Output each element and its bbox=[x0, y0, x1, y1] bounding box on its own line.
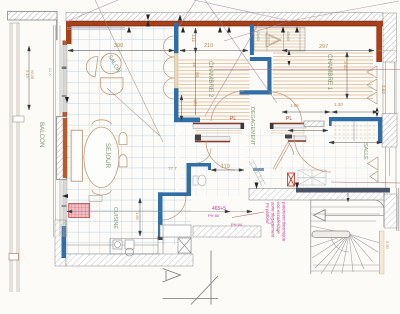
tile grid salle d'eau bbox=[300, 121, 378, 187]
sejour table bbox=[71, 120, 127, 195]
washbasin hatch bbox=[304, 121, 324, 127]
door leaf bathroom right bbox=[273, 142, 294, 170]
hatch band top main bbox=[66, 13, 383, 22]
bold wall arrows bbox=[62, 15, 379, 199]
hatch band right upper bbox=[383, 13, 397, 62]
red wall top bbox=[66, 21, 383, 26]
svg-text:297: 297 bbox=[319, 44, 328, 50]
hatch kitchen bottom band bbox=[66, 254, 193, 266]
svg-text:119: 119 bbox=[221, 164, 230, 170]
svg-text:2.13: 2.13 bbox=[25, 70, 30, 79]
section symbol A bbox=[163, 251, 219, 305]
magenta texts bbox=[208, 206, 243, 227]
baie vitree lines bbox=[67, 27, 125, 29]
red wall right leg bbox=[376, 21, 382, 62]
diagonal construction lines bbox=[66, 0, 399, 142]
arcs on wall W1 (salon side) bbox=[164, 36, 175, 99]
placard shelves under corridor bands bbox=[196, 131, 305, 134]
stair right tan strip bbox=[380, 231, 384, 274]
left wall windows bbox=[56, 20, 66, 237]
svg-text:210: 210 bbox=[204, 43, 213, 49]
svg-text:BALCON: BALCON bbox=[38, 122, 45, 147]
stairs bbox=[311, 188, 399, 274]
svg-text:2.92: 2.92 bbox=[343, 61, 348, 70]
closet divider bbox=[353, 121, 355, 141]
svg-text:PH 80: PH 80 bbox=[208, 213, 220, 218]
corridor top wall band right bbox=[270, 123, 306, 128]
stairs top wall band hatched bbox=[249, 189, 384, 201]
tile grid corridor bbox=[179, 125, 240, 196]
small radiator bbox=[89, 196, 102, 202]
salle d'eau door arc bbox=[294, 135, 331, 172]
room labels bbox=[38, 54, 368, 229]
kitchen counter bbox=[66, 225, 191, 256]
svg-text:111: 111 bbox=[190, 34, 196, 42]
svg-text:W.08: W.08 bbox=[30, 70, 35, 80]
svg-text:CHAMBRE 2: CHAMBRE 2 bbox=[207, 61, 214, 98]
window jambs/ticks left bbox=[48, 41, 67, 208]
duct strip bbox=[249, 160, 266, 187]
stair treads radiating bbox=[311, 207, 384, 274]
door strip tan bbox=[175, 53, 179, 88]
closet right dashes bbox=[334, 126, 377, 138]
salon furniture bbox=[85, 53, 123, 94]
small mark bbox=[253, 168, 264, 171]
placard top shelves bbox=[254, 29, 305, 50]
blue wall W4 wc/cuisine bbox=[187, 163, 212, 167]
svg-text:1.89: 1.89 bbox=[135, 212, 140, 221]
svg-text:465+5: 465+5 bbox=[212, 206, 226, 212]
svg-text:parement thermique: parement thermique bbox=[282, 201, 287, 242]
placard chevrons top right bbox=[266, 33, 281, 47]
red wall left leg bbox=[66, 21, 72, 44]
left wall hatched pier bbox=[57, 117, 67, 180]
placard small texts bbox=[256, 31, 290, 41]
blue wall W2 chambre2 bbox=[250, 25, 254, 56]
parquet chambre 1 bbox=[273, 52, 373, 100]
blue wall W3 closet/salle d'eau bbox=[329, 117, 382, 121]
tile grid bathroom top bbox=[179, 27, 250, 52]
door jambs corridor bbox=[241, 123, 274, 129]
corridor bottom wall right bbox=[285, 135, 306, 142]
hatch stairs right bbox=[384, 194, 397, 228]
cap bbox=[158, 237, 163, 241]
hatch left-bottom corner bbox=[55, 220, 66, 266]
svg-text:PL: PL bbox=[230, 116, 236, 122]
hatch band right mid bbox=[382, 114, 397, 148]
maroon PL labels bbox=[230, 116, 292, 122]
pink square cuisine bbox=[69, 204, 90, 218]
svg-text:45x60: 45x60 bbox=[286, 31, 290, 41]
svg-text:SALLE: SALLE bbox=[362, 143, 368, 160]
shower salle d'eau bbox=[298, 170, 326, 185]
stair center stadium bbox=[312, 231, 350, 238]
blue wall W5 kitchen left bbox=[62, 226, 67, 258]
dimension lines bbox=[28, 28, 398, 236]
svg-text:2.50: 2.50 bbox=[385, 241, 390, 250]
dim texts bbox=[25, 34, 390, 250]
balcony rails bbox=[9, 23, 24, 292]
svg-text:101: 101 bbox=[193, 99, 198, 107]
svg-text:2.52: 2.52 bbox=[381, 85, 386, 94]
wc fixture bbox=[193, 175, 206, 186]
corridor top wall band left bbox=[193, 123, 244, 129]
svg-text:zone degagement: zone degagement bbox=[271, 201, 276, 238]
svg-text:CUISINE: CUISINE bbox=[112, 207, 118, 229]
svg-text:PH 64: PH 64 bbox=[231, 222, 243, 227]
parquet niche chambre1 left bbox=[272, 57, 273, 94]
svg-text:SEJOUR: SEJOUR bbox=[104, 143, 111, 169]
blue wall W1 top bbox=[174, 23, 179, 53]
svg-text:45x60: 45x60 bbox=[256, 31, 260, 41]
svg-text:CHAMBRE 1: CHAMBRE 1 bbox=[326, 54, 333, 91]
svg-text:1.30: 1.30 bbox=[334, 102, 343, 107]
svg-text:56: 56 bbox=[192, 62, 197, 68]
svg-text:1.55: 1.55 bbox=[290, 103, 299, 108]
svg-text:21 X: 21 X bbox=[48, 68, 52, 76]
svg-text:80: 80 bbox=[195, 72, 200, 78]
svg-text:77 7: 77 7 bbox=[168, 166, 177, 171]
cuisine door arc bbox=[163, 196, 187, 220]
blue wall W1 bottom bbox=[174, 88, 179, 117]
magenta lines bbox=[214, 70, 400, 218]
stair top tick bbox=[347, 193, 349, 202]
svg-text:DEGAGEMENT: DEGAGEMENT bbox=[249, 107, 255, 146]
parquet chambre 2 bbox=[179, 57, 250, 121]
blue wall W1 foot bbox=[174, 118, 200, 123]
corridor bottom wall left bbox=[195, 135, 230, 143]
svg-text:Fx plafond: Fx plafond bbox=[265, 203, 270, 224]
pink annotation block bbox=[265, 201, 287, 242]
stair arrow bbox=[325, 214, 384, 216]
svg-text:voc escalier/age: voc escalier/age bbox=[276, 202, 281, 234]
svg-text:300: 300 bbox=[114, 43, 123, 49]
wc door arc bbox=[196, 148, 211, 163]
hatch wc bottom band bbox=[193, 226, 261, 237]
tile grid bath center bbox=[244, 129, 306, 187]
door arcs corridor top bbox=[206, 91, 302, 170]
hatch band top-left bbox=[8, 12, 58, 238]
red X box bbox=[288, 173, 295, 186]
svg-text:PL: PL bbox=[286, 116, 292, 122]
navy bar stairs top bbox=[296, 188, 390, 193]
orange strip on pier bbox=[63, 118, 67, 178]
window chevrons right top bbox=[367, 62, 396, 188]
tile grid salon/sejour/cuisine bbox=[66, 27, 191, 257]
